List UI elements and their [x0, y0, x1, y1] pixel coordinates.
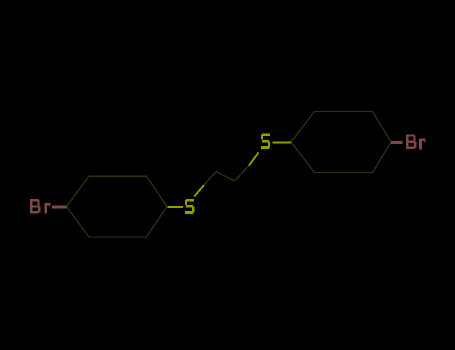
B — [30, 199, 33, 214]
benzene ring left (4-bromophenyl) — [67, 176, 168, 237]
atom label Br (left) — [30, 199, 51, 214]
B — [406, 134, 409, 149]
wire: CH2 to S2 (sulfur half) — [249, 153, 259, 166]
wire: S2 to right ring bond (sulfur colour) — [273, 142, 292, 144]
wire: S1 to CH2 (sulfur half) — [194, 185, 204, 197]
atom label Br (right) — [406, 134, 426, 149]
wire: Br1 to left ring bond (maroon) — [52, 206, 67, 209]
wire: S1 to CH2 (carbon half) — [204, 172, 216, 186]
wire: CH2 to S2 (carbon half) — [235, 166, 250, 182]
atom label S (right, S2) — [261, 134, 270, 149]
wire: left ring to S1 bond (sulfur colour) — [168, 206, 184, 208]
r — [419, 139, 422, 150]
r — [45, 203, 48, 214]
benzene ring right (4-bromophenyl) — [291, 112, 391, 173]
atom label S (left, S1) — [185, 199, 194, 214]
wire: CH2-CH2 central bond (carbon) — [216, 172, 235, 182]
wire: right ring to Br2 bond (maroon) — [391, 141, 403, 144]
